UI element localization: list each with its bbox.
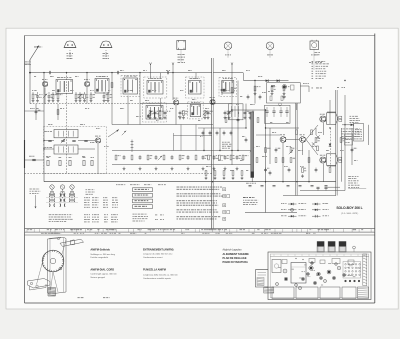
wire <box>269 50 271 58</box>
wire <box>195 125 197 151</box>
wire <box>282 143 284 182</box>
variable arrow <box>158 156 162 160</box>
alignment point <box>337 266 341 270</box>
IF transformer F1 <box>56 80 73 94</box>
wire <box>265 110 267 213</box>
capacitor <box>315 168 318 173</box>
capacitor <box>275 148 278 153</box>
wire <box>306 125 318 140</box>
resistor <box>75 94 77 99</box>
wire <box>327 165 336 167</box>
resistor <box>311 130 313 135</box>
diode D5 <box>329 144 332 147</box>
shield box F6 shield <box>219 78 237 97</box>
scattered value labels <box>32 70 357 171</box>
electrolytic capacitor <box>273 185 276 187</box>
capacitor at FM input <box>32 158 35 160</box>
resistor <box>219 155 221 160</box>
ground <box>301 174 304 177</box>
resistor <box>308 158 310 163</box>
svg-text:Lunghezza della funicella ca.: Lunghezza della funicella ca. 300 mm <box>143 275 178 277</box>
variable arrow <box>289 150 293 154</box>
variable arrow <box>78 94 82 98</box>
ground <box>204 116 207 119</box>
resistor <box>79 94 81 99</box>
capacitor <box>224 111 227 116</box>
ground <box>213 167 216 170</box>
FM tuner coil box L2 <box>54 145 78 154</box>
wire <box>112 164 251 166</box>
wire <box>32 92 34 94</box>
svg-text:AM/FM-DIAL CORD: AM/FM-DIAL CORD <box>90 267 114 271</box>
resistor <box>195 155 197 160</box>
wire <box>330 128 332 167</box>
ground <box>32 99 35 102</box>
ground <box>57 99 60 102</box>
ground <box>48 99 51 102</box>
coil winding table <box>46 192 78 222</box>
wire <box>323 164 325 182</box>
switch contact arrow <box>231 63 233 65</box>
resistor <box>315 138 317 143</box>
svg-text:SOLO-BOY 206 L: SOLO-BOY 206 L <box>336 206 362 210</box>
tuning arrow <box>108 130 119 138</box>
wire <box>213 72 243 74</box>
alignment point <box>284 277 288 281</box>
annotation block (amplifier note) <box>341 129 362 140</box>
series capacitor on rail <box>48 71 50 74</box>
resistor <box>163 155 165 160</box>
tuning capacitor on PCB <box>291 263 306 284</box>
component on PCB <box>320 260 325 264</box>
wire <box>25 173 214 175</box>
wire <box>35 104 37 120</box>
wire <box>302 143 304 155</box>
alignment point <box>327 270 331 274</box>
switch note text <box>133 214 165 222</box>
capacitor <box>259 95 262 100</box>
ratio detector box <box>267 83 301 103</box>
ground <box>123 167 126 170</box>
wire <box>344 95 346 191</box>
component on PCB <box>282 260 287 264</box>
capacitor <box>103 94 106 99</box>
capacitor <box>269 171 272 176</box>
resistor <box>232 171 234 176</box>
wire <box>90 92 92 94</box>
svg-text:Seillänge ca. 300 mm lang: Seillänge ca. 300 mm lang <box>90 254 115 256</box>
capacitor <box>228 111 231 116</box>
wire <box>25 63 31 65</box>
capacitor <box>202 155 205 160</box>
IF transformer F2 <box>95 79 109 94</box>
variable arrow <box>203 111 207 115</box>
wire <box>86 73 88 81</box>
resistor <box>147 155 149 160</box>
wire <box>175 106 177 125</box>
ground <box>103 99 106 102</box>
wire <box>57 104 59 120</box>
trimmer FM <box>72 139 75 141</box>
wire <box>244 80 289 82</box>
ground <box>154 116 157 119</box>
svg-text:Condensatore variabile aperto: Condensatore variabile aperto <box>143 277 172 280</box>
svg-text:Longueur du câble 300 mm env.: Longueur du câble 300 mm env. <box>143 253 173 256</box>
resistor FM <box>83 160 85 165</box>
wire <box>174 135 213 137</box>
resistor <box>275 158 277 163</box>
capacitor <box>283 95 286 100</box>
wire <box>105 50 107 60</box>
wire <box>29 60 31 104</box>
capacitor <box>237 118 240 123</box>
trimmer FM <box>84 139 87 141</box>
lamp symbol E1 <box>224 42 232 55</box>
svg-text:ENTRAINEMENT (AM/FM): ENTRAINEMENT (AM/FM) <box>143 249 174 252</box>
electrolytic capacitor <box>311 185 314 187</box>
AM detector cluster box <box>229 104 244 120</box>
ground <box>179 116 182 119</box>
frame top <box>25 35 375 37</box>
wire <box>243 73 245 81</box>
wire <box>173 133 175 151</box>
IF transformer F4 <box>147 81 163 95</box>
capacitor <box>224 155 227 160</box>
resistor <box>254 86 256 91</box>
wire <box>44 88 46 104</box>
svg-text:Condensateur ouvert: Condensateur ouvert <box>143 256 163 259</box>
wire <box>195 73 197 79</box>
ground <box>159 116 162 119</box>
resistor <box>223 171 225 176</box>
resistor <box>107 94 109 99</box>
resistor <box>214 171 216 176</box>
capacitor <box>48 94 51 99</box>
alignment point <box>307 273 310 276</box>
capacitor <box>223 131 226 136</box>
capacitor <box>36 94 39 99</box>
annotation block (output stage) <box>350 116 360 123</box>
wire <box>219 128 221 151</box>
tuning gang symbol M1 <box>64 41 76 59</box>
wire <box>97 144 99 174</box>
wire <box>306 140 318 156</box>
alignment point <box>295 284 298 287</box>
transistor T3 <box>173 100 178 105</box>
wire <box>256 134 280 136</box>
resistor <box>271 86 273 91</box>
battery compartment row <box>272 287 369 299</box>
trimmer FM <box>48 139 51 141</box>
capacitor <box>288 168 291 173</box>
ground <box>52 99 55 102</box>
ground <box>187 167 190 170</box>
wire <box>341 128 343 182</box>
svg-text:ALIGNMENT SCHEME: ALIGNMENT SCHEME <box>223 253 250 256</box>
wire <box>342 124 352 126</box>
resistor <box>265 148 267 153</box>
note block above legend <box>243 197 258 205</box>
svg-text:( 2 4 - 1000 - 0973 ): ( 2 4 - 1000 - 0973 ) <box>341 213 359 215</box>
ground <box>241 176 244 179</box>
marker circle <box>353 246 356 249</box>
resistor <box>329 168 331 173</box>
transistor T1 <box>42 81 47 86</box>
FM tuner coil box L1 <box>54 130 78 138</box>
legend list (voltages/notes) <box>312 52 346 88</box>
ground <box>236 167 239 170</box>
ground <box>36 99 39 102</box>
shield box F5 shield <box>186 77 205 98</box>
annotation block (lower right) <box>348 176 366 188</box>
wire <box>150 64 152 79</box>
wire <box>30 72 212 74</box>
AM antenna <box>25 46 42 74</box>
wire <box>131 140 133 153</box>
bottom section top line <box>25 234 375 236</box>
thermistor box <box>345 134 353 145</box>
wire <box>48 92 50 94</box>
resistor <box>225 118 227 123</box>
wire <box>103 92 105 94</box>
ground <box>244 116 247 119</box>
resistor <box>111 83 113 88</box>
transistor T7 <box>300 137 306 143</box>
variable arrow <box>122 131 126 135</box>
transistor T2 <box>84 81 89 86</box>
text: alignment plan headings <box>223 249 250 265</box>
capacitor <box>236 155 239 160</box>
wire <box>232 109 266 111</box>
shield box FM tuner <box>44 127 107 174</box>
resistor FM <box>47 160 49 165</box>
wire <box>112 150 251 152</box>
PCB left tab <box>256 270 269 287</box>
variable arrow <box>227 111 231 115</box>
bus wire <box>335 90 337 196</box>
wire <box>317 188 319 191</box>
svg-text:FUNICELLA AM/FM: FUNICELLA AM/FM <box>143 269 166 272</box>
IF transformer F6 <box>222 81 234 94</box>
ground <box>75 99 78 102</box>
resistor <box>302 168 304 173</box>
resistor <box>241 171 243 176</box>
wire <box>300 190 345 192</box>
diode D2 <box>277 79 280 82</box>
resistor <box>131 155 133 160</box>
wire <box>325 188 327 191</box>
wire <box>79 92 81 94</box>
ground <box>164 116 167 119</box>
ground <box>182 116 185 119</box>
alignment point <box>320 277 323 280</box>
capacitor <box>351 148 354 153</box>
wire <box>127 96 129 125</box>
switch contact arrow <box>172 63 174 65</box>
wire <box>269 128 271 164</box>
wire <box>69 50 71 60</box>
wire <box>329 100 331 124</box>
resistor <box>230 155 232 160</box>
resistor <box>159 111 161 116</box>
wire <box>227 50 229 58</box>
detector filter box <box>265 105 291 123</box>
frame left <box>24 36 26 304</box>
PCB part number tag <box>264 287 274 293</box>
wire <box>84 92 86 94</box>
junction dots <box>29 72 30 73</box>
shield box F9 shield <box>188 102 204 119</box>
wire <box>160 98 162 112</box>
alignment point <box>301 277 304 280</box>
tuning gang symbol M2 <box>100 41 112 59</box>
wire <box>327 111 336 113</box>
wire <box>112 124 213 126</box>
bus wire <box>212 58 214 229</box>
alignment point <box>343 274 346 277</box>
capacitor in filter <box>265 110 268 112</box>
capacitor <box>164 111 167 116</box>
resistor <box>208 155 210 160</box>
capacitor <box>139 155 142 160</box>
numbered notes block <box>177 187 230 221</box>
jack socket symbol BU1 <box>309 40 322 63</box>
frame left dark segment <box>24 140 26 168</box>
trimmer capacitor at 331.6 <box>328 242 335 253</box>
svg-text:AM/FM-Seiltrieb: AM/FM-Seiltrieb <box>90 247 110 251</box>
wire <box>245 104 247 128</box>
ground <box>271 92 274 95</box>
wire <box>266 127 300 129</box>
diode D1 <box>266 79 269 82</box>
transistor T6 <box>280 137 286 143</box>
variable arrow <box>61 139 65 143</box>
wire <box>140 103 232 105</box>
label row under bottom rail <box>116 183 118 186</box>
connector mark <box>131 144 134 146</box>
transistor T9 <box>320 157 326 163</box>
trimmer capacitor at 342.5 <box>339 242 346 253</box>
wire <box>44 148 54 150</box>
resistor <box>115 155 117 160</box>
wire <box>323 123 325 136</box>
alignment point <box>313 281 316 284</box>
output transformer TR2 <box>327 154 342 166</box>
wire <box>368 125 370 145</box>
variable arrow <box>43 94 47 98</box>
coil alignment symbols K1 K2 K3 <box>50 185 74 194</box>
wire <box>66 73 68 174</box>
variable arrow <box>148 111 152 115</box>
alignment point <box>335 263 338 266</box>
wire stub at detector output <box>300 85 309 87</box>
PCB inner outline <box>270 254 369 298</box>
alignment point <box>276 283 279 286</box>
ground <box>249 116 252 119</box>
capacitor <box>216 131 219 136</box>
ground <box>207 116 210 119</box>
resistor <box>282 158 284 163</box>
IF transformer F9 <box>190 105 201 117</box>
resistor <box>179 155 181 160</box>
component on PCB <box>309 259 315 263</box>
ground <box>205 176 208 179</box>
capacitor <box>154 111 157 116</box>
resistor <box>84 94 86 99</box>
wire <box>107 92 109 94</box>
shield box F8 shield <box>143 103 167 123</box>
IF transformer F5 <box>189 81 202 95</box>
resistor <box>242 155 244 160</box>
ground <box>214 176 217 179</box>
electrolytic capacitor <box>287 185 290 187</box>
resistor FM <box>91 160 93 165</box>
wire <box>111 73 113 125</box>
wire <box>44 140 54 142</box>
capacitor <box>207 111 210 116</box>
svg-text:Abgleich-Lageplan: Abgleich-Lageplan <box>223 249 243 252</box>
resistor <box>231 88 233 93</box>
svg-text:PIANO DI TARATURA: PIANO DI TARATURA <box>223 261 249 264</box>
bus wire <box>211 58 213 229</box>
electrolytic capacitor <box>299 185 302 187</box>
capacitor <box>264 168 267 173</box>
wire <box>231 64 233 165</box>
lamp symbol E2 <box>266 42 274 55</box>
capacitor <box>202 131 205 136</box>
capacitor <box>213 155 216 160</box>
ground <box>83 99 86 102</box>
variable arrow <box>250 148 254 152</box>
trimmer capacitor at 320.6 <box>317 242 324 253</box>
resistor <box>340 138 342 143</box>
resistor <box>204 111 206 116</box>
resistor <box>57 110 59 115</box>
wire <box>325 186 340 188</box>
wire <box>30 103 140 105</box>
alignment point <box>317 272 321 276</box>
wire <box>351 128 353 165</box>
capacitor in filter <box>272 110 275 112</box>
battery symbol GB <box>177 41 186 63</box>
alignment point <box>324 280 327 283</box>
connector mark <box>131 147 134 149</box>
capacitor <box>187 155 190 160</box>
resistor <box>52 94 54 99</box>
capacitor in filter <box>285 110 288 112</box>
wire <box>245 212 297 214</box>
ground <box>228 116 231 119</box>
wire <box>296 104 298 110</box>
ground <box>223 176 226 179</box>
text FR: ENTRAINEMENT <box>143 249 174 260</box>
capacitor in filter <box>279 110 282 112</box>
resistor <box>183 111 185 116</box>
wire <box>25 159 45 161</box>
capacitor <box>123 155 126 160</box>
electrolytic capacitor <box>249 185 252 187</box>
wire <box>160 73 162 79</box>
PCB alignment drawing <box>256 242 372 300</box>
X mark <box>316 135 319 138</box>
text DE: AM/FM-Seiltrieb <box>90 247 115 259</box>
resistor FM <box>59 160 61 165</box>
wire <box>283 195 336 197</box>
X mark <box>312 142 315 145</box>
diode <box>351 124 354 127</box>
wire <box>198 127 246 129</box>
capacitor <box>249 111 252 116</box>
